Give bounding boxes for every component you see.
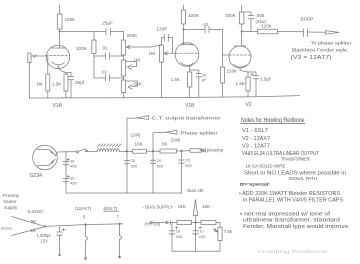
note to phase splitter (291, 41, 352, 62)
svg-text:(6Vac): (6Vac) (1, 227, 13, 231)
junction plate V1B (183, 29, 184, 30)
svg-text:Howling Redbone.: Howling Redbone. (258, 249, 330, 254)
svg-text:preamp: preamp (207, 148, 224, 153)
potentiometer 1M mid (121, 55, 140, 76)
label (6SL7) pin 7 (104, 206, 120, 220)
svg-text:supply: supply (4, 205, 18, 210)
svg-text:1,000μf: 1,000μf (37, 233, 52, 238)
resistor 100K plate V1A (57, 14, 76, 29)
capacitor .02 upper (94, 46, 124, 60)
switch standby (66, 149, 97, 153)
svg-text:V1 - 6SL7: V1 - 6SL7 (242, 128, 268, 134)
svg-text:1.5K: 1.5K (236, 81, 246, 86)
svg-text:1M: 1M (36, 82, 43, 87)
capacitor 2.5uF cathode V2 (248, 72, 271, 97)
resistor preamp dropper (190, 149, 205, 153)
wire plate V1A (59, 29, 61, 48)
svg-text:5: 5 (83, 215, 86, 220)
capacitor 1000uF heater (37, 226, 65, 256)
svg-text:500P: 500P (301, 17, 314, 22)
svg-text:- BIAS SUPPLY: - BIAS SUPPLY (143, 205, 174, 210)
potentiometer 250K treble (121, 32, 151, 56)
svg-text:100K: 100K (225, 13, 237, 18)
svg-text:20: 20 (157, 158, 162, 163)
wire jack ground leg (28, 63, 30, 99)
capacitor .005 (248, 13, 267, 32)
resistor 1.5K cathode V1B (171, 66, 192, 98)
capacitor 25uF cathode V1B (190, 70, 207, 97)
svg-text:120P: 120P (157, 27, 168, 32)
arrow preamp (200, 148, 224, 153)
svg-text:10: 10 (176, 229, 181, 234)
svg-text:56K: 56K (134, 82, 143, 87)
inductor choke (97, 144, 133, 152)
diode heater upper (12, 217, 45, 227)
svg-text:Fender, Marshall type would im: Fender, Marshall type would improve. (243, 224, 350, 230)
svg-text:heater: heater (4, 199, 17, 204)
svg-text:SIGNAL PATH.: SIGNAL PATH. (289, 176, 319, 181)
svg-text:450: 450 (70, 164, 77, 169)
capacitor .02 coupling V1B-V2 (184, 22, 223, 67)
svg-text:Preamp: Preamp (3, 193, 20, 198)
svg-text:1M: 1M (149, 51, 156, 56)
svg-text:2.5μf: 2.5μf (260, 77, 271, 82)
junction rail 10K-5K (152, 150, 154, 152)
node plate V1A to tone stack (60, 31, 106, 33)
svg-text:Notes for Howling Redbone: Notes for Howling Redbone (241, 117, 305, 124)
wire cathode V2 (240, 68, 248, 77)
svg-text:1.5K: 1.5K (171, 77, 181, 82)
svg-text:(12AX7): (12AX7) (75, 206, 92, 211)
resistor 1.5k cathode V1A (52, 74, 68, 98)
svg-text:ultralinear transformer. stand: ultralinear transformer. standard (243, 218, 340, 224)
arrow C.T. output transformer (127, 116, 221, 121)
svg-text:220K: 220K (261, 24, 273, 29)
node choke output (126, 118, 128, 151)
svg-text:500: 500 (185, 163, 192, 168)
diode heater lower (12, 227, 45, 236)
resistor 100K plate V2 (225, 12, 244, 46)
diode bias (166, 221, 177, 225)
tube GZ34 rectifier (33, 145, 66, 170)
svg-text:100K: 100K (188, 13, 200, 18)
arrow phase splitter tap (153, 130, 218, 151)
wire heater drop 6SL7 (119, 223, 122, 258)
wire plate node V2 (242, 31, 258, 33)
wire grid V2 (223, 54, 230, 56)
svg-text:18 GA SOLID WIRE: 18 GA SOLID WIRE (246, 163, 286, 168)
wire input to grid (31, 55, 46, 57)
ground bus psu (66, 192, 182, 194)
svg-text:μF: μF (202, 78, 207, 82)
capacitor 25uF cathode V1A (66, 73, 85, 98)
svg-text:Phase splitter: Phase splitter (181, 131, 219, 136)
junction rail 5K-R (181, 150, 183, 152)
svg-text:V2 - 12AX7: V2 - 12AX7 (242, 136, 270, 142)
svg-text:20: 20 (131, 158, 136, 163)
resistor 15K bias second (201, 204, 220, 227)
arrow -Bias ckt up (193, 200, 197, 223)
svg-text:(V3 = 12AT7): (V3 = 12AT7) (291, 55, 332, 61)
potentiometer 56K bass (121, 76, 142, 98)
svg-text:TRANSFORMER): TRANSFORMER) (281, 157, 311, 162)
svg-text:100K: 100K (65, 17, 77, 22)
capacitor 20/500 third (179, 151, 193, 193)
svg-text:.005: .005 (256, 13, 265, 18)
capacitor 10/150 first (169, 223, 183, 252)
resistor 100K plate V1B (181, 5, 199, 45)
label (12AX7) pin 5 (75, 206, 92, 220)
wire 250K wiper to volume pot (151, 45, 162, 47)
svg-text:450: 450 (70, 181, 77, 186)
note preamp heater supply (3, 193, 20, 210)
svg-text:15K: 15K (178, 204, 187, 209)
svg-text:1.5k: 1.5k (52, 82, 61, 87)
capacitor 32/450 filter (63, 152, 77, 193)
svg-text:500: 500 (157, 164, 164, 169)
svg-text:500: 500 (131, 164, 138, 169)
resistor 100K tone (76, 32, 96, 79)
svg-text:GZ34: GZ34 (30, 173, 43, 179)
capacitor 80/450 filter (63, 175, 77, 185)
resistor 1M grid V1A (36, 56, 50, 98)
resistor 15K bias first (177, 204, 201, 225)
svg-text:B+ special:: B+ special: (240, 182, 270, 187)
svg-text:(6SL7): (6SL7) (104, 206, 118, 211)
svg-text:7.5k: 7.5k (224, 229, 233, 234)
note underline (241, 122, 306, 125)
tube V1B (175, 43, 199, 67)
svg-text:- Bias ckt: - Bias ckt (185, 188, 205, 193)
svg-text:7: 7 (117, 215, 120, 220)
svg-text:To phase splitter: To phase splitter (311, 41, 352, 47)
ground rail main (29, 96, 299, 98)
resistor 220K output (258, 24, 278, 34)
capacitor 120P bright (157, 27, 173, 54)
capacitor 10/150 second (193, 223, 207, 252)
svg-text:in PARALLEL WITH V4/V5 FILTER: in PARALLEL WITH V4/V5 FILTER CAPS (243, 198, 344, 204)
svg-text:10: 10 (199, 229, 204, 234)
resistor 220K grid V2 (220, 67, 238, 97)
svg-text:220K: 220K (227, 69, 239, 74)
input jack (28, 53, 36, 63)
resistor 1.5K cathode V2 (236, 77, 251, 97)
svg-text:.25μF: .25μF (101, 21, 113, 26)
svg-text:25μf: 25μf (75, 80, 85, 85)
svg-text:250K: 250K (127, 33, 139, 38)
potentiometer 7.5k bias (214, 227, 233, 251)
junction bias node (195, 222, 197, 224)
junction rail choke out (126, 151, 128, 153)
arrow to phase splitter (326, 31, 340, 35)
capacitor .25uF (101, 21, 124, 36)
svg-text:10K: 10K (135, 142, 144, 147)
potentiometer 1M volume (149, 45, 177, 98)
svg-text:.02: .02 (101, 70, 107, 75)
resistor 5K 2W (160, 138, 190, 154)
junction plate V2 (241, 31, 242, 32)
tube V2 (229, 46, 251, 68)
svg-text:6.3VDC: 6.3VDC (28, 209, 45, 214)
svg-text:20: 20 (186, 158, 191, 163)
svg-text:V2: V2 (246, 102, 252, 108)
svg-text:15K: 15K (202, 204, 211, 209)
capacitor .02 lower (94, 70, 124, 82)
svg-text:V1A: V1A (53, 103, 63, 109)
svg-text:V1B: V1B (185, 103, 195, 109)
wire top rail V2 (242, 5, 251, 16)
ground bus bias (172, 250, 220, 252)
capacitor 20/500 first (124, 151, 138, 193)
svg-text:• ADD 220K 1WATT Bleeder RESIS: • ADD 220K 1WATT Bleeder RESISTORS (239, 191, 341, 197)
wire bias input (150, 222, 165, 224)
wire heater bus (45, 224, 123, 227)
svg-text:.02: .02 (102, 46, 108, 51)
resistor 10K 2W (131, 133, 161, 154)
node heater bus (44, 226, 46, 228)
svg-text:Blackface Fender style.: Blackface Fender style. (292, 48, 349, 53)
svg-text:(2W): (2W) (131, 133, 141, 138)
svg-text:5K: 5K (162, 142, 169, 147)
capacitor 20/500 second (150, 151, 164, 193)
capacitor 500pF (278, 17, 326, 37)
svg-text:150: 150 (199, 234, 206, 239)
tube V1A (46, 45, 70, 68)
wire cathode V1A (58, 65, 66, 75)
svg-text:(2W): (2W) (171, 138, 181, 143)
svg-text:100K: 100K (76, 46, 88, 51)
wire B+ stub V1A (59, 5, 61, 14)
svg-text:150: 150 (175, 234, 182, 239)
wire heater drop 12AX7 (85, 224, 88, 260)
svg-text:15V: 15V (41, 239, 49, 244)
svg-text:C.T. output transformer: C.T. output transformer (152, 116, 222, 121)
junction plate V1A (59, 31, 60, 32)
svg-text:V3 - 12AT7: V3 - 12AT7 (242, 144, 270, 150)
